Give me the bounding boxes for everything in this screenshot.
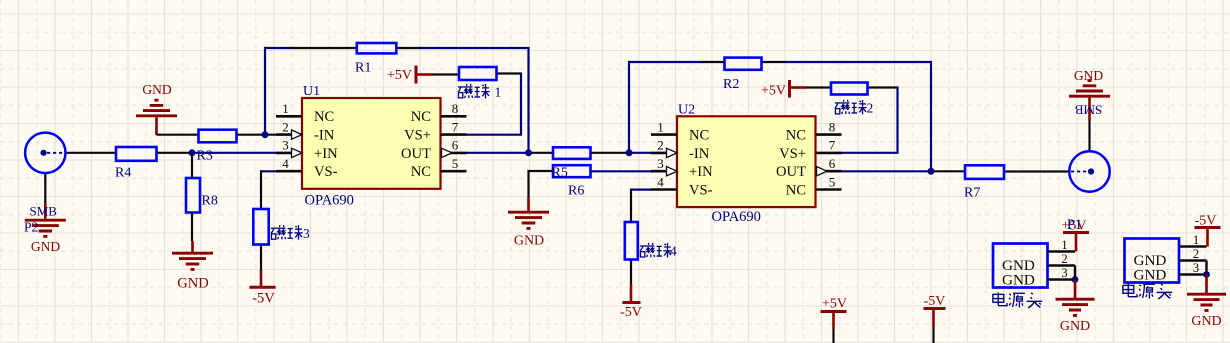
svg-text:5: 5 (452, 156, 459, 171)
svg-text:-IN: -IN (314, 128, 335, 144)
svg-text:R2: R2 (723, 77, 739, 92)
svg-text:GND: GND (1134, 267, 1167, 284)
svg-text:7: 7 (829, 138, 836, 153)
svg-text:VS-: VS- (314, 164, 338, 180)
svg-text:VS-: VS- (689, 182, 713, 198)
svg-text:5: 5 (829, 174, 836, 189)
svg-text:-5V: -5V (924, 294, 946, 309)
svg-text:4: 4 (670, 244, 677, 259)
svg-text:VS+: VS+ (404, 128, 431, 144)
svg-text:R4: R4 (115, 166, 131, 181)
svg-text:+5V: +5V (822, 297, 847, 312)
svg-text:VS+: VS+ (779, 146, 806, 162)
svg-text:2: 2 (1193, 247, 1199, 261)
svg-text:OUT: OUT (776, 164, 806, 180)
svg-text:3: 3 (303, 226, 310, 241)
svg-text:GND: GND (177, 276, 208, 292)
svg-text:P2: P2 (24, 220, 38, 235)
svg-text:OUT: OUT (401, 146, 431, 162)
svg-text:NC: NC (689, 128, 709, 144)
svg-text:+IN: +IN (314, 146, 338, 162)
svg-text:GND: GND (1060, 319, 1090, 334)
svg-text:GND: GND (1191, 314, 1221, 329)
svg-text:R7: R7 (964, 186, 980, 201)
svg-text:GND: GND (1002, 272, 1035, 289)
svg-text:4: 4 (657, 174, 664, 189)
svg-text:1: 1 (282, 101, 289, 116)
svg-text:R3: R3 (197, 149, 213, 164)
svg-text:GND: GND (514, 234, 544, 249)
svg-text:R8: R8 (202, 194, 218, 209)
svg-text:GND: GND (1074, 68, 1103, 83)
svg-text:SMB: SMB (1074, 103, 1102, 118)
svg-text:1: 1 (657, 119, 664, 134)
svg-text:2: 2 (282, 119, 289, 134)
svg-text:2: 2 (657, 138, 664, 153)
svg-text:GND: GND (31, 239, 60, 254)
svg-text:+IN: +IN (689, 164, 713, 180)
svg-text:6: 6 (452, 138, 459, 153)
svg-text:P1: P1 (1067, 217, 1082, 233)
svg-text:U2: U2 (678, 103, 695, 118)
svg-text:GND: GND (142, 82, 171, 97)
svg-text:1: 1 (1193, 233, 1199, 247)
svg-text:-5V: -5V (1195, 214, 1217, 229)
svg-text:+5V: +5V (387, 68, 412, 83)
svg-text:+5V: +5V (761, 84, 786, 99)
svg-text:8: 8 (452, 101, 459, 116)
svg-text:SMB: SMB (30, 204, 58, 219)
svg-text:3: 3 (282, 138, 289, 153)
svg-text:R1: R1 (355, 61, 371, 76)
svg-text:OPA690: OPA690 (305, 193, 354, 209)
svg-text:7: 7 (452, 119, 459, 134)
svg-text:NC: NC (411, 164, 431, 180)
svg-text:-IN: -IN (689, 146, 710, 162)
svg-text:6: 6 (829, 156, 836, 171)
svg-text:3: 3 (1193, 261, 1199, 275)
svg-text:2: 2 (1061, 252, 1067, 266)
svg-text:-5V: -5V (252, 291, 275, 307)
svg-text:1: 1 (1061, 238, 1067, 252)
svg-text:NC: NC (314, 109, 334, 125)
svg-text:NC: NC (411, 109, 431, 125)
svg-text:R5: R5 (552, 166, 568, 181)
svg-text:4: 4 (282, 156, 289, 171)
svg-text:3: 3 (657, 156, 664, 171)
svg-text:-5V: -5V (620, 305, 642, 320)
svg-text:OPA690: OPA690 (712, 209, 761, 225)
svg-text:1: 1 (495, 85, 502, 100)
svg-text:3: 3 (1061, 266, 1067, 280)
svg-text:NC: NC (786, 182, 806, 198)
svg-text:R6: R6 (568, 184, 584, 199)
svg-text:8: 8 (829, 119, 836, 134)
svg-text:2: 2 (867, 101, 874, 116)
svg-text:U1: U1 (303, 84, 320, 99)
svg-text:NC: NC (786, 128, 806, 144)
